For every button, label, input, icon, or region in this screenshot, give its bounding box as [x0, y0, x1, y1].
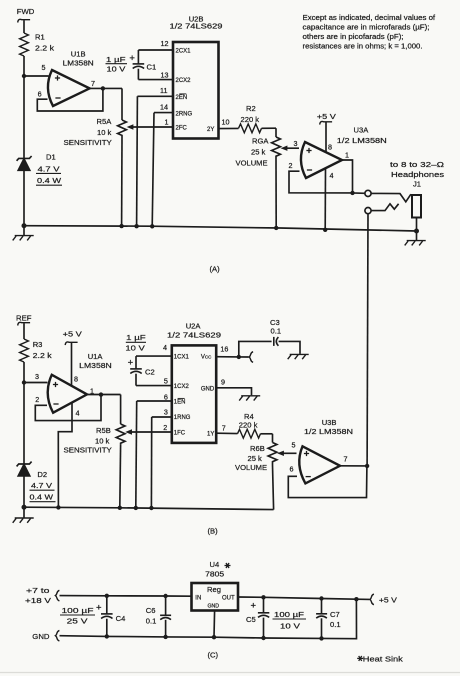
svg-text:3: 3 [294, 139, 298, 148]
svg-text:OUT: OUT [222, 595, 235, 601]
svg-text:1 µF: 1 µF [126, 333, 146, 342]
svg-text:others are in picofarads (pF);: others are in picofarads (pF); [303, 32, 404, 41]
svg-text:2EN: 2EN [176, 95, 188, 101]
svg-text:R5B: R5B [96, 426, 111, 435]
svg-text:6: 6 [38, 90, 42, 99]
svg-text:SENSITIVITY: SENSITIVITY [64, 446, 112, 455]
svg-text:10 k: 10 k [95, 436, 110, 445]
svg-text:+: + [129, 53, 135, 64]
svg-text:+: + [96, 603, 102, 614]
svg-text:8: 8 [74, 374, 78, 383]
svg-text:GND: GND [32, 632, 50, 641]
svg-text:100 µF: 100 µF [62, 606, 94, 615]
svg-text:LM358N: LM358N [79, 361, 112, 370]
svg-text:U2A: U2A [186, 322, 202, 331]
svg-text:C7: C7 [330, 610, 340, 619]
svg-text:6: 6 [290, 465, 294, 474]
svg-text:1 µF: 1 µF [106, 55, 126, 64]
svg-text:J1: J1 [413, 180, 421, 189]
svg-text:1: 1 [165, 117, 169, 126]
svg-text:11: 11 [160, 86, 167, 95]
svg-text:(C): (C) [208, 651, 219, 660]
svg-text:GND: GND [208, 604, 220, 610]
svg-text:1/2 LM358N: 1/2 LM358N [337, 136, 387, 145]
svg-text:7: 7 [344, 455, 348, 464]
svg-text:1CX1: 1CX1 [174, 355, 190, 361]
svg-text:REF: REF [16, 314, 32, 323]
svg-text:+5 V: +5 V [317, 112, 337, 121]
svg-text:1/2 LM358N: 1/2 LM358N [304, 427, 353, 436]
svg-text:1CX2: 1CX2 [174, 384, 190, 390]
svg-text:1RNG: 1RNG [174, 415, 191, 421]
svg-text:16: 16 [220, 345, 228, 354]
svg-text:RGA: RGA [252, 137, 269, 146]
svg-text:13: 13 [161, 71, 169, 80]
svg-text:2: 2 [163, 423, 167, 432]
svg-text:2.2 k: 2.2 k [35, 44, 54, 53]
svg-text:10 k: 10 k [97, 128, 112, 137]
svg-text:10 V: 10 V [107, 65, 127, 74]
svg-text:C4: C4 [116, 614, 126, 623]
svg-text:2CX2: 2CX2 [176, 78, 192, 84]
svg-text:0.1: 0.1 [330, 620, 341, 629]
svg-text:220 k: 220 k [239, 421, 258, 430]
svg-text:Heat Sink: Heat Sink [363, 655, 403, 664]
svg-text:4: 4 [76, 408, 80, 417]
svg-text:1Y: 1Y [207, 432, 214, 438]
svg-text:3: 3 [35, 372, 39, 381]
svg-text:1EN: 1EN [174, 400, 186, 406]
svg-text:R2: R2 [246, 104, 256, 113]
svg-text:GND: GND [201, 386, 215, 392]
svg-text:to 8 to 32–Ω: to 8 to 32–Ω [390, 160, 444, 169]
svg-text:4: 4 [163, 343, 167, 352]
svg-text:10 V: 10 V [125, 343, 146, 352]
svg-text:4.7 V: 4.7 V [31, 481, 53, 490]
svg-text:+5 V: +5 V [63, 330, 83, 339]
svg-text:2CX1: 2CX1 [176, 49, 192, 55]
svg-text:VOLUME: VOLUME [236, 159, 268, 168]
svg-text:4: 4 [330, 171, 334, 180]
svg-text:VCC: VCC [201, 355, 212, 361]
svg-text:2.2 k: 2.2 k [33, 351, 52, 360]
svg-text:10 V: 10 V [280, 622, 301, 631]
svg-text:100 µF: 100 µF [274, 610, 304, 619]
svg-text:220 k: 220 k [241, 115, 260, 124]
svg-text:7: 7 [91, 79, 95, 88]
svg-text:5: 5 [292, 441, 296, 450]
svg-text:D1: D1 [46, 153, 56, 162]
svg-text:R6B: R6B [250, 444, 265, 453]
svg-text:12: 12 [161, 39, 169, 48]
svg-text:C5: C5 [246, 615, 256, 624]
svg-text:U3B: U3B [322, 418, 337, 427]
svg-text:U4: U4 [210, 560, 220, 569]
svg-text:FWD: FWD [17, 7, 35, 16]
svg-text:6: 6 [164, 393, 168, 402]
svg-text:R3: R3 [33, 340, 43, 349]
svg-text:25 k: 25 k [248, 454, 263, 463]
svg-text:14: 14 [160, 103, 168, 112]
svg-text:IN: IN [195, 595, 201, 601]
svg-text:4.7 V: 4.7 V [38, 164, 61, 173]
svg-text:5: 5 [42, 63, 46, 72]
svg-text:(A): (A) [210, 265, 221, 274]
svg-text:2: 2 [35, 395, 39, 404]
svg-text:0.4 W: 0.4 W [30, 493, 54, 502]
svg-text:C2: C2 [145, 368, 155, 377]
svg-text:U3A: U3A [354, 126, 370, 135]
svg-text:Except as indicated, decimal v: Except as indicated, decimal values of [303, 13, 437, 22]
svg-text:1/2 74LS629: 1/2 74LS629 [170, 22, 223, 31]
svg-text:25 V: 25 V [67, 617, 89, 626]
svg-text:U1A: U1A [88, 352, 104, 361]
svg-text:R1: R1 [35, 33, 45, 42]
svg-text:Headphones: Headphones [391, 170, 444, 179]
svg-text:2: 2 [289, 161, 293, 170]
svg-text:1: 1 [90, 386, 94, 395]
svg-text:2RNG: 2RNG [176, 112, 193, 118]
svg-text:7805: 7805 [205, 570, 224, 579]
svg-text:+5 V: +5 V [379, 596, 398, 605]
svg-text:+7 to: +7 to [26, 586, 50, 595]
svg-text:9: 9 [221, 378, 225, 387]
svg-text:LM358N: LM358N [63, 59, 94, 68]
svg-text:resistances are in ohms; k = 1: resistances are in ohms; k = 1,000. [303, 42, 423, 51]
svg-text:R5A: R5A [97, 117, 113, 126]
svg-text:U1B: U1B [71, 49, 86, 58]
svg-text:VOLUME: VOLUME [235, 463, 267, 472]
svg-text:R4: R4 [244, 412, 254, 421]
svg-text:C6: C6 [146, 606, 156, 615]
svg-text:+: + [128, 358, 134, 369]
svg-text:+: + [251, 601, 257, 612]
svg-text:3: 3 [164, 408, 168, 417]
svg-text:(B): (B) [208, 527, 219, 536]
svg-text:5: 5 [164, 377, 168, 386]
svg-text:1: 1 [345, 151, 349, 160]
svg-text:0.1: 0.1 [146, 617, 157, 626]
svg-text:7: 7 [222, 423, 226, 432]
svg-text:2FC: 2FC [176, 126, 188, 132]
svg-text:0.1: 0.1 [271, 327, 282, 336]
svg-text:0.4 W: 0.4 W [37, 176, 62, 185]
svg-text:SENSITIVITY: SENSITIVITY [64, 138, 112, 147]
svg-text:10: 10 [222, 117, 230, 126]
svg-text:1/2 74LS629: 1/2 74LS629 [167, 331, 221, 340]
svg-text:Reg: Reg [207, 585, 221, 594]
svg-text:D2: D2 [37, 470, 47, 479]
svg-text:+18 V: +18 V [25, 596, 52, 605]
svg-text:C1: C1 [147, 63, 157, 72]
svg-text:25 k: 25 k [251, 148, 266, 157]
svg-text:capacitance are in microfarads: capacitance are in microfarads (µF); [303, 22, 430, 31]
svg-text:8: 8 [328, 143, 332, 152]
svg-text:2Y: 2Y [207, 127, 214, 133]
svg-text:1FC: 1FC [174, 431, 186, 437]
